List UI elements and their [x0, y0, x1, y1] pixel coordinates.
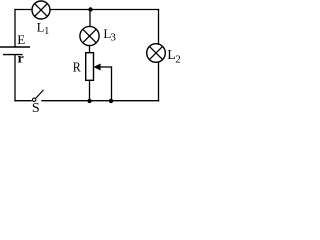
svg-text:R: R: [73, 60, 82, 75]
battery positive plate (long): [0, 46, 30, 48]
wire L3 to rheostat: [89, 46, 91, 53]
svg-text:S: S: [32, 101, 40, 113]
svg-text:E: E: [17, 32, 25, 47]
lamp L1: [32, 1, 50, 19]
wire bottom right segment: [41, 100, 159, 102]
wire top-left segment: [14, 9, 32, 11]
node junction top: [88, 7, 92, 11]
wire top-right segment: [49, 9, 159, 11]
rheostat R body: [86, 53, 94, 81]
node junction bottom right: [109, 99, 113, 103]
wire right side upper: [158, 9, 160, 45]
wire middle branch upper: [89, 10, 91, 27]
wire left side lower: [14, 55, 16, 102]
svg-text:1: 1: [44, 26, 49, 37]
rheostat wiper arrow: [94, 64, 113, 71]
switch S blade: [35, 90, 43, 99]
wire right side lower: [158, 61, 160, 101]
wire bottom left segment: [14, 100, 31, 102]
battery negative plate (short): [3, 54, 23, 56]
wire left side upper: [14, 9, 16, 47]
lamp L2: [147, 44, 166, 63]
svg-text:r: r: [18, 52, 24, 67]
svg-text:3: 3: [110, 31, 116, 43]
node junction bottom left: [87, 99, 91, 103]
lamp L3: [80, 26, 99, 45]
svg-text:2: 2: [175, 54, 181, 66]
switch S pivot: [32, 98, 35, 101]
wire rheostat bottom lead: [89, 80, 91, 101]
wire wiper down: [111, 66, 113, 101]
